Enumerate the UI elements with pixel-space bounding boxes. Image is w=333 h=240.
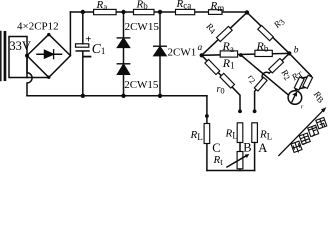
electrode C column wire: [206, 96, 208, 171]
node dot bottom rail zener1: [121, 94, 125, 98]
zener branch 1 wire: [123, 12, 125, 96]
resistor Ra bridge box: [220, 51, 237, 57]
galvanometer circle: [288, 91, 302, 105]
resistor RB box (tilted): [303, 75, 313, 88]
svg-text:Rb: Rb: [256, 39, 269, 54]
wire diagonal R3 (top junction to node b): [247, 12, 289, 53]
zener branch 2 wire: [159, 12, 161, 96]
bottom rail: [27, 95, 207, 97]
resistor Ra (top rail): [94, 9, 117, 14]
svg-text:R3: R3: [271, 16, 287, 32]
svg-text:Rca: Rca: [176, 0, 192, 11]
resistor R3 box: [258, 25, 274, 40]
svg-text:RL: RL: [225, 128, 238, 141]
bottom rail 2: [207, 170, 255, 172]
svg-text:a: a: [198, 43, 203, 53]
svg-text:r: r: [301, 104, 304, 111]
svg-text:RL: RL: [259, 129, 272, 142]
zener D2 cathode bar: [117, 63, 129, 65]
rheostat Rt arrow: [227, 155, 247, 167]
resistor Rb (top rail): [134, 9, 155, 14]
node dot B column: [238, 109, 242, 113]
resistor r0 box (diagonal): [220, 73, 235, 88]
zener D1 triangle: [118, 38, 130, 47]
svg-text:2CW15: 2CW15: [125, 21, 160, 33]
svg-text:RL: RL: [190, 129, 203, 142]
capacitor C1 negative plate: [76, 50, 90, 52]
wire galvanometer branch from mid junction to meter: [241, 55, 289, 95]
svg-text:Rt: Rt: [213, 154, 224, 167]
RT RB pair bottom connector bar: [296, 87, 306, 89]
node dot mid a-b junction: [239, 53, 243, 57]
node dot A column: [253, 109, 257, 113]
RT RB pair top connector bar: [301, 76, 311, 78]
current direction arrowhead: [321, 107, 326, 112]
node dot top rail zener2: [158, 10, 162, 14]
top rail: [70, 11, 247, 13]
zener D3 triangle: [154, 47, 166, 56]
wire node b to RT RB pair: [289, 53, 311, 75]
wire bridge right corner up to top rail: [69, 12, 71, 56]
rheostat Rt arrowhead: [245, 154, 250, 158]
svg-text:r0: r0: [217, 84, 225, 96]
bridge inner diode: [45, 50, 54, 58]
svg-text:2CW15: 2CW15: [124, 79, 159, 91]
node a dot: [200, 53, 204, 57]
svg-text:4×2CP12: 4×2CP12: [17, 21, 59, 33]
node dot top junction: [245, 10, 249, 14]
svg-text:RB: RB: [310, 88, 327, 105]
wire B column lower: [239, 143, 241, 171]
resistor Rm (top rail): [209, 10, 223, 15]
svg-text:b: b: [294, 45, 299, 55]
node dot bridge top corner: [47, 33, 50, 36]
svg-text:Ra: Ra: [96, 0, 108, 12]
resistor r2 box (diagonal): [254, 77, 267, 91]
wire diagonal from node a through R1 r0 down to electrode B column: [202, 55, 240, 111]
wire A column lower: [254, 143, 256, 171]
resistor RL C box: [204, 124, 210, 144]
resistor Rb bridge box: [255, 50, 272, 56]
wire bridge left corner down with hop over, to bottom rail: [27, 56, 32, 96]
node b dot: [287, 51, 291, 55]
wire pair to galvanometer: [295, 89, 298, 91]
wire diagonal R4 (top junction to node a): [202, 12, 247, 55]
node dot top rail C1: [81, 10, 85, 14]
C1 minus sign: [84, 56, 91, 58]
transformer core: [4, 31, 7, 81]
resistor R2 box (diagonal): [269, 58, 284, 72]
node dot bottom rail zener2: [158, 94, 162, 98]
resistor R1 box (diagonal): [205, 59, 220, 74]
galvanometer needle: [292, 95, 296, 102]
bridge inner diode leads: [37, 53, 62, 55]
resistor RL A box: [252, 123, 258, 143]
svg-text:R1: R1: [222, 56, 235, 71]
svg-text:C1: C1: [92, 41, 106, 56]
node dot bridge bottom corner: [47, 76, 50, 79]
node dot bridge left corner: [25, 54, 29, 58]
svg-text:A: A: [258, 141, 267, 155]
bridge rectifier diamond: [27, 34, 70, 77]
wire C1 branch top: [82, 12, 84, 44]
svg-text:33V: 33V: [9, 39, 31, 53]
wire node a to node b: [202, 53, 290, 55]
wire secondary bottom to bridge bottom corner: [27, 77, 49, 79]
capacitor C1 positive plate: [76, 44, 89, 47]
galvanometer needle arrowhead: [292, 92, 297, 97]
current direction text (hand-drawn CJK glyphs): [291, 141, 302, 154]
zener D2 triangle: [118, 64, 130, 74]
svg-text:B: B: [243, 140, 251, 154]
resistor RL B box: [237, 123, 243, 143]
svg-text:Ra: Ra: [222, 39, 234, 54]
node dot C column: [205, 114, 209, 118]
zener D3 cathode bar: [154, 45, 167, 47]
svg-text:Rb: Rb: [136, 0, 149, 11]
node dot bottom rail C1: [81, 94, 85, 98]
svg-text:r2: r2: [245, 72, 259, 86]
transformer secondary 33V box: [9, 37, 27, 78]
svg-text:Rm: Rm: [210, 0, 225, 13]
svg-text:2CW1: 2CW1: [168, 47, 197, 59]
bridge inner diode cathode bar: [53, 50, 55, 59]
rheostat Rt box: [237, 152, 243, 169]
wire C1 branch bottom: [82, 52, 84, 96]
resistor RT box (tilted): [294, 77, 304, 90]
svg-text:C: C: [212, 141, 220, 155]
resistor R4 box: [217, 26, 233, 41]
svg-text:+: +: [85, 34, 91, 46]
zener D1 cathode bar: [117, 37, 129, 39]
transformer primary winding: [0, 32, 2, 81]
node dot top rail zener1: [121, 10, 125, 14]
svg-text:R4: R4: [203, 20, 219, 36]
wire node b diagonal with hop through R2 r2 to electrode A column: [255, 53, 290, 111]
resistor Rca (top rail): [176, 9, 195, 14]
current direction arrow: [279, 111, 323, 156]
